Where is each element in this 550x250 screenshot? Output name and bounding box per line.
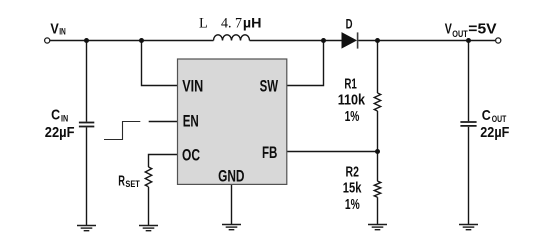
svg-text:22µF: 22µF bbox=[480, 125, 509, 141]
wire inductor to diode bbox=[250, 40, 342, 42]
svg-text:L: L bbox=[199, 15, 208, 31]
wire R1 to FB node bbox=[377, 111, 379, 152]
label R1 values bbox=[338, 75, 366, 125]
capacitor CIN bbox=[79, 123, 94, 127]
svg-text:OUT: OUT bbox=[452, 29, 468, 39]
ground CIN bbox=[77, 226, 96, 231]
svg-text:C: C bbox=[482, 108, 491, 124]
label CIN bbox=[45, 107, 75, 140]
svg-text:OUT: OUT bbox=[492, 114, 507, 124]
wire SW pin up to rail bbox=[287, 41, 324, 86]
svg-text:D: D bbox=[346, 17, 353, 32]
svg-text:FB: FB bbox=[262, 143, 277, 162]
node SW junction bbox=[321, 38, 326, 43]
svg-text:IN: IN bbox=[59, 27, 66, 37]
wire rail to R1 bbox=[377, 41, 379, 94]
resistor R1 bbox=[374, 93, 380, 111]
wire diode to output terminal bbox=[358, 40, 496, 42]
wire CIN branch down bbox=[86, 41, 88, 122]
svg-text:1%: 1% bbox=[345, 108, 360, 125]
wire OC pin to RSET bbox=[149, 155, 178, 168]
capacitor COUT bbox=[460, 122, 476, 126]
svg-text:V: V bbox=[445, 21, 452, 37]
svg-text:110k: 110k bbox=[338, 92, 366, 109]
svg-text:C: C bbox=[51, 107, 60, 123]
wire top rail left bbox=[50, 40, 214, 42]
svg-text:22µF: 22µF bbox=[45, 125, 75, 141]
op-amp U1 IC body bbox=[178, 59, 287, 184]
wire RSET to ground bbox=[148, 187, 150, 225]
svg-text:VIN: VIN bbox=[182, 77, 203, 96]
wire COUT branch down bbox=[468, 41, 470, 122]
svg-text:R: R bbox=[118, 173, 125, 189]
wire EN pin bbox=[149, 121, 178, 123]
node VIN junction IC bbox=[139, 38, 144, 43]
svg-text:IN: IN bbox=[61, 113, 68, 123]
ground COUT bbox=[459, 225, 478, 230]
wire VIN branch bbox=[142, 41, 178, 86]
inductor L bbox=[214, 35, 250, 41]
node FB junction bbox=[375, 149, 380, 154]
ground R2 bbox=[368, 225, 387, 230]
wire FB node to R2 bbox=[377, 152, 379, 182]
svg-text:OC: OC bbox=[182, 146, 200, 165]
svg-text:V: V bbox=[50, 21, 59, 37]
resistor RSET bbox=[145, 167, 151, 187]
svg-text:µH: µH bbox=[243, 15, 262, 30]
svg-text:R1: R1 bbox=[344, 75, 357, 92]
svg-text:=5V: =5V bbox=[468, 21, 497, 37]
wire COUT to ground bbox=[468, 127, 470, 225]
label COUT bbox=[480, 108, 509, 141]
svg-text:SW: SW bbox=[260, 77, 279, 96]
wire FB pin to divider bbox=[287, 151, 378, 153]
node R1 top junction bbox=[375, 38, 380, 43]
label VIN terminal bbox=[50, 21, 66, 37]
terminal VIN bbox=[45, 38, 50, 43]
node VIN junction CIN bbox=[84, 38, 89, 43]
svg-text:SET: SET bbox=[125, 179, 140, 189]
ground GND pin bbox=[222, 225, 241, 230]
ground RSET bbox=[139, 226, 158, 231]
svg-text:R2: R2 bbox=[346, 164, 359, 181]
wire R2 to ground bbox=[377, 197, 379, 224]
svg-text:4. 7: 4. 7 bbox=[221, 15, 242, 31]
svg-text:15k: 15k bbox=[343, 180, 362, 197]
wire GND pin to ground bbox=[231, 184, 233, 224]
svg-text:EN: EN bbox=[183, 112, 199, 131]
terminal VOUT bbox=[496, 38, 501, 43]
label RSET bbox=[118, 173, 140, 189]
label R2 values bbox=[343, 164, 362, 213]
diode D bbox=[342, 32, 358, 48]
resistor R2 bbox=[374, 181, 380, 197]
label VOUT terminal bbox=[445, 21, 497, 38]
wire CIN to ground bbox=[86, 127, 88, 225]
svg-text:1%: 1% bbox=[345, 196, 360, 213]
EN step-signal symbol bbox=[104, 122, 140, 140]
node VOUT junction bbox=[466, 38, 471, 43]
label L value bbox=[199, 15, 262, 31]
svg-text:GND: GND bbox=[218, 166, 244, 185]
